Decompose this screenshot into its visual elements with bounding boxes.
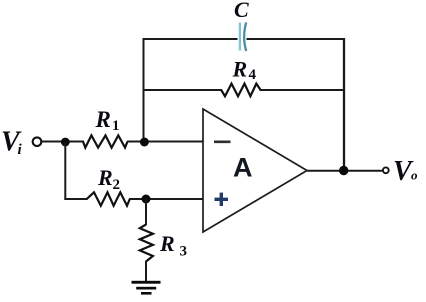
terminal Vi open circle <box>33 137 42 146</box>
svg-text:4: 4 <box>249 67 257 83</box>
wire output <box>307 170 383 172</box>
resistor R2 <box>87 192 130 205</box>
resistor R4 <box>221 84 260 97</box>
wire feedback right vertical <box>343 38 345 171</box>
wire junction down to R3 <box>145 199 147 225</box>
wire feedback left vertical <box>143 38 145 142</box>
capacitor C left plate <box>239 23 241 51</box>
node junction inverting input / feedback <box>140 138 149 147</box>
svg-text:R: R <box>232 57 248 82</box>
op-amp plus sign <box>215 193 229 206</box>
node junction R2 / R3 <box>142 195 151 204</box>
resistor R3 <box>140 225 153 262</box>
node junction at Vi branch <box>61 138 70 147</box>
node output junction <box>339 166 348 175</box>
svg-text:1: 1 <box>112 118 120 134</box>
svg-text:C: C <box>234 0 249 22</box>
resistor R1 <box>83 135 128 147</box>
wire R3 to ground <box>145 261 147 281</box>
svg-text:A: A <box>233 153 253 183</box>
wire top capacitor branch right segment <box>247 38 345 40</box>
ground <box>132 281 161 295</box>
wire Vi branch vertical down <box>64 142 66 199</box>
svg-text:R: R <box>159 231 175 256</box>
wire top capacitor branch left segment <box>144 38 238 40</box>
svg-text:R: R <box>95 107 111 132</box>
svg-text:3: 3 <box>180 244 188 260</box>
wire R2 to non-inverting input <box>129 198 203 200</box>
wire to R2 <box>64 198 87 200</box>
wire Vi to R1 <box>42 141 84 143</box>
svg-text:R: R <box>97 165 113 190</box>
op-amp minus sign <box>214 141 231 144</box>
svg-text:o: o <box>411 168 418 183</box>
wire R4 branch left segment <box>144 89 223 91</box>
svg-text:2: 2 <box>113 177 121 193</box>
capacitor C right plate <box>244 22 246 51</box>
wire R1 to inverting input <box>127 141 203 143</box>
terminal Vo open circle <box>383 167 389 173</box>
op-amp U1 triangle <box>203 109 307 232</box>
svg-text:i: i <box>18 142 23 158</box>
wire R4 branch right segment <box>260 89 345 91</box>
